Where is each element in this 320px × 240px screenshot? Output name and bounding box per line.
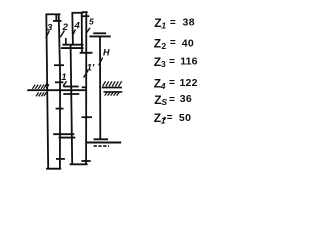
shaft of gear 2 / gear 1	[59, 14, 60, 75]
mesh double bar lower y48.1	[61, 47, 84, 49]
ring gear Z4 right side	[81, 13, 83, 53]
svg-text:Z: Z	[154, 37, 161, 51]
svg-text:3: 3	[47, 23, 53, 34]
left support hatch below axis	[36, 92, 47, 96]
ring gear Z4 top bar	[72, 12, 84, 14]
gear tick on shaft5 y117	[82, 116, 92, 118]
svg-text:4: 4	[74, 21, 81, 32]
right support hatch above	[103, 81, 122, 86]
text line Z5 = 36	[154, 93, 192, 107]
svg-text:S: S	[161, 97, 167, 107]
stub left of shaft5 y87	[82, 86, 86, 88]
gear bar below axis	[63, 93, 79, 95]
svg-text:122: 122	[180, 77, 198, 89]
svg-text:4: 4	[160, 81, 166, 91]
svg-text:=: =	[169, 95, 175, 106]
carrier H top long bar	[89, 35, 110, 37]
gear bar above axis	[63, 86, 78, 88]
gear bar on shaft5 y53	[80, 52, 93, 54]
stub above upper bar	[65, 38, 67, 45]
ring gear Z3 left side	[46, 14, 48, 170]
carrier H stem	[99, 36, 101, 139]
leader of label H	[99, 58, 103, 66]
bottom mesh double bar upper y134	[53, 133, 74, 135]
svg-text:1': 1'	[87, 63, 95, 74]
svg-text:5: 5	[89, 17, 94, 27]
gear tick on shaft2 y109	[56, 108, 64, 110]
svg-text:H: H	[103, 48, 110, 58]
svg-text:=: =	[169, 77, 175, 88]
text line Z1 = 38	[154, 16, 195, 31]
text line Z2 = 40	[154, 37, 194, 51]
right support lower line	[104, 91, 123, 93]
svg-text:=: =	[169, 56, 175, 67]
ring gear Z4 left side	[71, 13, 74, 45]
mesh tick ring3-gear2	[53, 20, 62, 22]
svg-text:38: 38	[183, 17, 195, 29]
svg-text:1: 1	[161, 21, 166, 31]
text line Z4 = 122	[154, 77, 198, 92]
leader of label 3	[46, 31, 49, 38]
ring gear Z3 bottom bar	[46, 168, 61, 170]
svg-text:1: 1	[61, 72, 66, 83]
svg-text:2: 2	[161, 41, 166, 51]
apostrophe in Z1'	[163, 117, 166, 120]
leader of label 5	[86, 28, 90, 33]
ring gear Z3 right side	[55, 14, 57, 22]
svg-text:3: 3	[161, 59, 166, 69]
gear tick on shaft2 y82	[55, 81, 63, 83]
ground symbol long bar	[87, 142, 121, 144]
svg-text:40: 40	[182, 37, 194, 49]
gear tick on shaft2 y159	[56, 158, 65, 160]
ground symbol bottom dashed bar	[94, 145, 109, 147]
text line Z1' = 50	[154, 111, 192, 125]
svg-text:2: 2	[62, 22, 69, 33]
svg-text:36: 36	[180, 93, 192, 105]
carrier H top short bar	[93, 32, 106, 34]
svg-text:=: =	[170, 18, 176, 29]
frame axis line	[27, 89, 86, 91]
bottom bar joining middle shaft and shaft5	[70, 163, 88, 165]
leader of label 1'	[84, 71, 88, 78]
left support hatch above axis	[32, 82, 49, 89]
svg-text:116: 116	[180, 55, 198, 67]
shaft 5 top cap	[82, 11, 88, 13]
svg-text:=: =	[170, 38, 176, 49]
mesh tick ring4-gear5	[82, 15, 90, 17]
mesh double bar upper y44.7	[62, 44, 83, 46]
ground symbol under H: top short bar	[94, 138, 109, 140]
middle shaft	[71, 45, 73, 164]
gear tick on shaft5 y161	[81, 160, 90, 162]
leader of label 4	[73, 29, 75, 34]
svg-text:50: 50	[179, 112, 191, 124]
leader of label 1	[63, 81, 67, 86]
text line Z3 = 116	[154, 55, 198, 69]
svg-text:1: 1	[161, 115, 166, 125]
right support upper line	[102, 87, 122, 89]
shaft of gears 5 and 1'	[85, 12, 87, 165]
ring gear Z3 top bar	[46, 13, 61, 15]
bottom mesh double bar lower y137.6	[59, 137, 76, 139]
svg-text:=: =	[167, 113, 173, 124]
leader of label 2	[60, 31, 64, 38]
gear tick on shaft2 y65	[54, 64, 64, 66]
right support hatch below	[105, 92, 120, 95]
